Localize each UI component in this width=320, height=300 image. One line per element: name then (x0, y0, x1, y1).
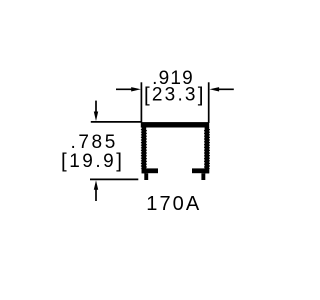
profile: left wall (142, 127, 147, 173)
svg-text:[23.3]: [23.3] (144, 83, 206, 106)
dim .919: right arrow (218, 88, 234, 90)
svg-text:.785: .785 (71, 132, 118, 153)
dim .785: bottom arrow (up) (95, 188, 97, 201)
dim .785: top arrow (down) (95, 101, 97, 114)
profile: right wall (205, 127, 210, 173)
svg-text:170A: 170A (146, 193, 201, 215)
dim .919: right extension line (208, 82, 210, 123)
svg-text:[19.9]: [19.9] (61, 150, 124, 173)
profile: right wall serration (203, 130, 205, 168)
dim .785: bottom extension line (90, 178, 138, 180)
dim .919: left extension line (140, 82, 142, 122)
profile: left foot stub (144, 173, 148, 180)
dim .785: top extension line (91, 121, 141, 123)
profile: left wall serration (140, 129, 142, 169)
profile: left foot flange (142, 168, 158, 173)
profile: right foot stub (201, 173, 205, 180)
profile 170A: top bar (141, 122, 209, 127)
profile: right foot flange (192, 168, 209, 173)
dim .919: left arrow (116, 88, 133, 90)
